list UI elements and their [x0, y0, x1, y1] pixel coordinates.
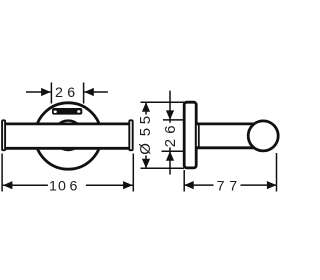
side view: arm fill	[197, 123, 253, 150]
dim 26 top: left-pointing arrow	[84, 88, 94, 96]
dim 106 bottom: right-pointing arrow	[123, 181, 133, 189]
dim 26 top: right extension line	[83, 83, 85, 104]
dim 26 side: down-pointing arrow	[166, 110, 174, 120]
front view: bar bottom edge	[6, 147, 129, 150]
dim dia55: dimension line	[145, 102, 147, 168]
dim 26 top: left extension line	[50, 83, 52, 104]
front view: right end cap	[129, 120, 132, 150]
side view: plate bottom extension line	[141, 167, 185, 169]
dim 26 top: right-pointing arrow	[41, 88, 51, 96]
svg-text:106: 106	[49, 178, 78, 194]
dim 106 bottom: left-pointing arrow	[3, 181, 13, 189]
dim 26 side: top extension line	[163, 119, 184, 121]
dim 26 side: bottom extension line	[162, 150, 185, 152]
dim 106 bottom: left extension line	[1, 154, 3, 192]
fixing plate slot right	[77, 110, 80, 113]
front view: fixing plate (black)	[52, 108, 82, 115]
dim 77: right extension line (below ball)	[276, 153, 278, 192]
side view: wall plate	[184, 102, 196, 168]
front view: bar fill	[5, 123, 131, 150]
dim 26 top: right line segment	[84, 91, 108, 93]
dim 77: right-pointing arrow	[267, 181, 277, 189]
dim dia55: up-pointing arrow	[142, 102, 150, 112]
front view: wall rose circle	[35, 103, 101, 169]
dim 26 top: left line segment	[26, 91, 51, 93]
dim 106 bottom: right extension line	[132, 154, 134, 192]
dim 77: dimension line	[184, 184, 276, 186]
side view: ball end	[248, 121, 278, 151]
front view: left end cap	[2, 120, 5, 150]
dim 77: text gap mask	[214, 181, 241, 190]
side view: arm bottom edge	[196, 146, 255, 149]
dim 26 side: text background	[164, 123, 177, 148]
dim dia55: text background	[140, 115, 153, 156]
side view: plate top extension line	[141, 101, 185, 103]
dim 106 bottom: dimension line	[3, 184, 133, 186]
dim 26 side: dimension line	[169, 91, 171, 175]
dim 106 bottom: text gap mask	[48, 181, 86, 190]
dim dia55: down-pointing arrow	[142, 159, 150, 169]
dim 26 side: up-pointing arrow	[166, 151, 174, 161]
side view: collar seam line	[198, 124, 200, 148]
dim 77: left-pointing arrow	[184, 181, 194, 189]
side view: arm top edge	[196, 122, 255, 125]
fixing plate slot left	[54, 111, 57, 114]
dim 77: left extension line (below plate)	[183, 170, 185, 192]
svg-text:Ø55: Ø55	[137, 116, 154, 155]
front view: bar top edge	[6, 122, 129, 125]
front view: hub circle behind bar	[53, 121, 82, 150]
